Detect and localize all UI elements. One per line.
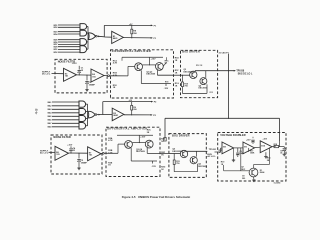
- svg-text:8881: 8881: [113, 38, 118, 40]
- svg-text:750: 750: [176, 163, 180, 165]
- svg-text:8881: 8881: [113, 115, 118, 117]
- svg-text:+15V: +15V: [67, 145, 73, 147]
- svg-text:E8: E8: [223, 147, 226, 149]
- svg-text:D664: D664: [260, 171, 265, 174]
- svg-text:BA6: BA6: [48, 119, 52, 122]
- svg-text:TP9 B1: TP9 B1: [209, 149, 217, 151]
- svg-text:-15V: -15V: [152, 166, 157, 168]
- svg-text:+15V: +15V: [72, 63, 78, 65]
- svg-text:P2: P2: [154, 102, 157, 104]
- svg-text:1K: 1K: [175, 85, 178, 87]
- svg-text:BA5: BA5: [48, 115, 52, 118]
- svg-text:P1: P1: [154, 25, 157, 27]
- svg-text:21 CB1 P1: 21 CB1 P1: [219, 53, 230, 55]
- svg-text:NOISE FILTER: NOISE FILTER: [53, 135, 71, 139]
- svg-text:DEC6534M: DEC6534M: [184, 70, 195, 73]
- svg-text:BA7: BA7: [48, 122, 52, 125]
- svg-text:BUS DC LO L: BUS DC LO L: [238, 74, 253, 76]
- svg-text:DEC3009: DEC3009: [136, 151, 146, 153]
- svg-text:1K: 1K: [161, 169, 164, 171]
- svg-text:35: 35: [280, 153, 282, 155]
- svg-text:4.7K: 4.7K: [113, 74, 118, 77]
- svg-text:BD2: BD2: [54, 52, 58, 54]
- svg-text:741: 741: [89, 154, 93, 157]
- svg-text:1K: 1K: [219, 152, 222, 154]
- svg-text:-15V: -15V: [164, 88, 169, 90]
- svg-text:DEC3009: DEC3009: [199, 88, 207, 90]
- svg-text:E9: E9: [244, 147, 247, 149]
- svg-text:+15V: +15V: [151, 58, 157, 60]
- svg-text:+15V: +15V: [140, 136, 146, 138]
- svg-text:BUS DRIVER: BUS DRIVER: [182, 50, 200, 54]
- svg-text:E10: E10: [261, 145, 266, 147]
- svg-text:TP8 B8: TP8 B8: [236, 71, 245, 73]
- svg-text:BD2: BD2: [54, 27, 58, 29]
- svg-text:R13: R13: [210, 92, 213, 94]
- svg-text:BA1: BA1: [48, 101, 52, 104]
- svg-text:BD8: BD8: [54, 47, 58, 49]
- svg-text:DIFFERENTIAL AMPLIFIER: DIFFERENTIAL AMPLIFIER: [112, 49, 151, 53]
- svg-text:1K: 1K: [175, 72, 178, 74]
- svg-text:BA8: BA8: [48, 126, 52, 129]
- svg-text:DEC3009: DEC3009: [146, 74, 156, 76]
- svg-text:BA3: BA3: [48, 108, 52, 111]
- svg-text:DEC3009: DEC3009: [198, 166, 208, 168]
- svg-text:1K: 1K: [113, 87, 116, 89]
- svg-text:BD4: BD4: [54, 33, 59, 36]
- svg-text:180MF: 180MF: [89, 84, 96, 86]
- svg-text:+15V: +15V: [263, 138, 268, 140]
- svg-text:4-8: 4-8: [33, 108, 38, 115]
- svg-text:4.7K: 4.7K: [108, 139, 113, 142]
- svg-text:35: 35: [73, 150, 76, 152]
- svg-text:1K: 1K: [175, 60, 178, 62]
- svg-text:DEC: DEC: [241, 169, 246, 171]
- svg-text:100K: 100K: [250, 153, 255, 155]
- svg-text:5K: 5K: [147, 132, 150, 134]
- svg-text:BUS DRIVER: BUS DRIVER: [172, 134, 190, 138]
- svg-text:35: 35: [81, 70, 84, 72]
- svg-text:741: 741: [65, 75, 69, 78]
- svg-text:180MF: 180MF: [81, 162, 88, 164]
- svg-text:4.7K: 4.7K: [108, 151, 113, 154]
- svg-text:VOLTAGE DOUBLER: VOLTAGE DOUBLER: [220, 133, 245, 137]
- svg-text:BD1: BD1: [54, 49, 58, 51]
- svg-text:R12 1K: R12 1K: [196, 65, 203, 67]
- svg-text:BA4: BA4: [48, 112, 53, 115]
- svg-text:741: 741: [56, 153, 60, 156]
- svg-text:11-1083: 11-1083: [274, 183, 281, 185]
- svg-text:Figure 4-5 UNIBUS Power Fail: Figure 4-5 UNIBUS Power Fail Drivers Sch…: [122, 195, 191, 199]
- svg-text:4.7K: 4.7K: [113, 62, 118, 65]
- svg-text:BA2: BA2: [48, 105, 52, 108]
- svg-text:AC LO L: AC LO L: [207, 155, 216, 158]
- svg-text:750: 750: [184, 86, 188, 88]
- svg-text:390: 390: [133, 109, 137, 111]
- svg-text:741: 741: [92, 75, 96, 78]
- svg-text:390: 390: [133, 33, 137, 35]
- svg-text:1K: 1K: [161, 154, 164, 156]
- svg-text:P1: P1: [154, 38, 157, 40]
- svg-text:390: 390: [242, 178, 245, 180]
- svg-text:P2: P2: [153, 115, 156, 117]
- svg-text:1K: 1K: [108, 165, 111, 167]
- svg-text:DC LO L: DC LO L: [42, 74, 51, 76]
- svg-text:AC LO L: AC LO L: [40, 152, 49, 155]
- svg-text:DIFFERENTIAL AMPLIFIER: DIFFERENTIAL AMPLIFIER: [107, 126, 147, 130]
- svg-text:+15V: +15V: [246, 140, 251, 142]
